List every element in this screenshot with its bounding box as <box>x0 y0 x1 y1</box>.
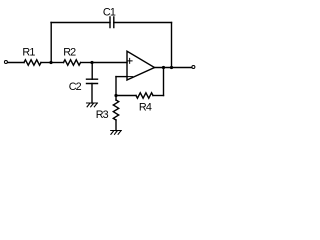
wire R2 to node B <box>81 62 92 64</box>
wire feedback node to R3 <box>115 96 117 101</box>
wire node D down to output rail <box>171 23 173 68</box>
wire feedback rail right <box>153 95 164 97</box>
ground (C2) <box>87 103 98 107</box>
svg-text:C2: C2 <box>69 81 82 93</box>
wire - input down to feedback node <box>115 77 117 96</box>
resistor R2 <box>64 60 81 65</box>
top rail right wire from C1 to node D <box>114 22 172 24</box>
wire R3 to ground <box>115 120 117 131</box>
input terminal <box>4 61 7 64</box>
svg-text:C1: C1 <box>103 7 116 19</box>
node B dot <box>90 61 93 64</box>
wire node A up to top rail <box>50 23 52 63</box>
svg-text:R4: R4 <box>139 101 152 113</box>
wire op-amp - input <box>116 76 127 78</box>
resistor R1 <box>24 60 41 65</box>
op-amp U1 <box>127 51 155 80</box>
output wire <box>155 67 192 69</box>
capacitor C1 <box>110 17 114 28</box>
node A dot <box>49 61 52 64</box>
resistor R3 <box>113 100 118 120</box>
svg-text:R1: R1 <box>22 47 35 59</box>
wire node B down to C2 <box>91 63 93 80</box>
op-amp + sign <box>127 58 132 63</box>
capacitor C2 <box>87 79 98 83</box>
feedback node dot <box>114 94 117 97</box>
resistor R4 <box>136 93 153 98</box>
wire output node down <box>163 68 165 96</box>
top rail left wire to C1 <box>51 22 110 24</box>
output node dot <box>162 66 165 69</box>
ground (R3) <box>111 131 122 135</box>
wire node A to R2 <box>51 62 64 64</box>
wire input to R1 <box>8 62 24 64</box>
node D dot <box>170 66 173 69</box>
wire R1 to node A <box>41 62 51 64</box>
wire node B to op-amp + input <box>92 62 127 64</box>
wire feedback rail left <box>116 95 136 97</box>
op-amp - sign <box>128 76 133 78</box>
svg-text:R3: R3 <box>96 109 109 121</box>
wire C2 to ground <box>91 84 93 104</box>
output terminal <box>192 66 195 69</box>
svg-text:R2: R2 <box>63 47 76 59</box>
